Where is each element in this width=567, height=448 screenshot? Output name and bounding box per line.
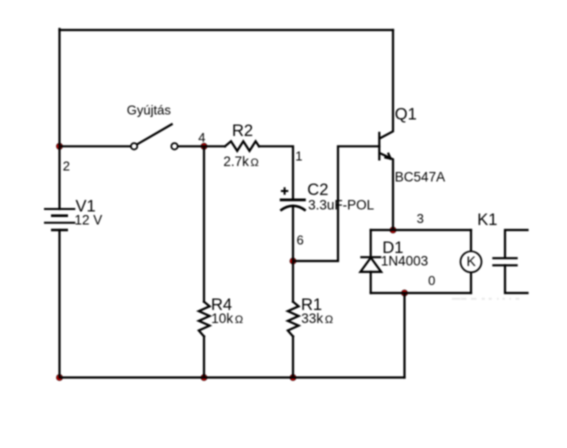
svg-text:K1: K1: [477, 211, 497, 229]
svg-text:R2: R2: [232, 122, 253, 140]
svg-text:2.7kΩ: 2.7kΩ: [223, 154, 258, 169]
svg-text:1: 1: [295, 149, 302, 164]
svg-text:0: 0: [428, 273, 435, 288]
svg-text:2: 2: [63, 159, 70, 174]
svg-text:3.3uF-POL: 3.3uF-POL: [308, 198, 375, 213]
svg-text:BC547A: BC547A: [395, 169, 445, 184]
svg-text:Gyújtás: Gyújtás: [127, 103, 172, 118]
svg-text:33kΩ: 33kΩ: [301, 311, 333, 326]
svg-text:C2: C2: [307, 181, 328, 199]
svg-text:10kΩ: 10kΩ: [211, 311, 243, 326]
svg-text:Q1: Q1: [395, 106, 417, 124]
svg-text:1N4003: 1N4003: [381, 253, 428, 268]
svg-text:4: 4: [198, 130, 205, 145]
svg-text:3: 3: [417, 211, 424, 226]
svg-text:K: K: [467, 253, 477, 269]
svg-text:6: 6: [297, 233, 304, 248]
svg-text:12 V: 12 V: [75, 212, 103, 227]
